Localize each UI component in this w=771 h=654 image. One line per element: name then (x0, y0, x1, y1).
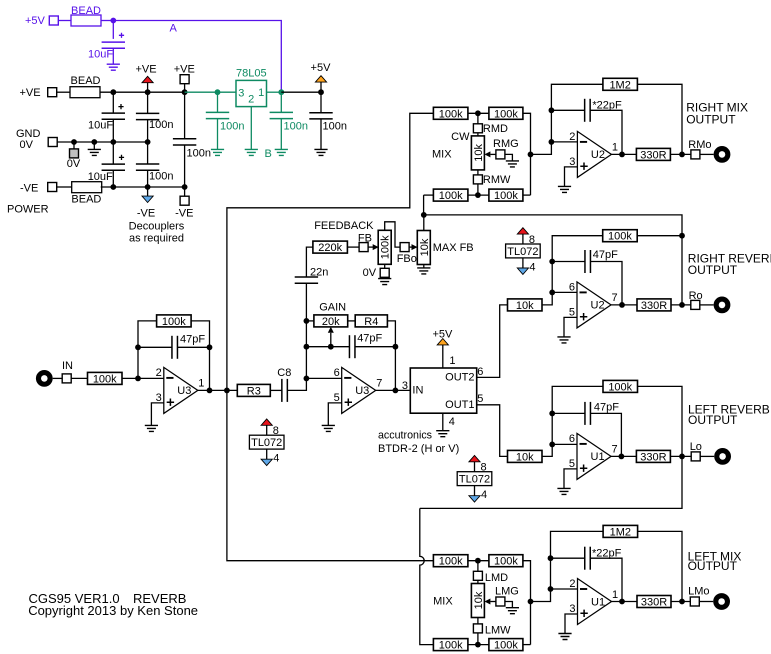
junction +5V node (318, 89, 324, 95)
capacitor *22pF (U2a) (551, 109, 584, 111)
wire 100k to output node (637, 235, 682, 237)
svg-text:1M2: 1M2 (610, 526, 631, 538)
svg-text:47pF: 47pF (593, 249, 618, 261)
ground (78L05 pin2) (245, 149, 258, 155)
junction -VE rail / -VE pad (182, 184, 188, 190)
resistor 100k (left mix top row, dry) (433, 555, 468, 567)
resistor 100k (input) (88, 372, 123, 384)
wire RMo pad to jack (700, 153, 714, 155)
wire +VE pad stub (184, 84, 186, 93)
junction +VE rail / 100n (145, 89, 151, 95)
ferrite bead BEAD (+VE) (70, 87, 100, 98)
svg-text:5: 5 (477, 393, 483, 405)
wire to U1b inverting / feedback (542, 386, 603, 456)
wire reverb-out feedback line (424, 215, 682, 305)
ground (U1b pin5) (557, 488, 570, 494)
svg-text:100k: 100k (439, 640, 463, 652)
wire U1b pin5 to ground (564, 469, 577, 489)
resistor 100k (right mix bottom row, right) (489, 189, 523, 201)
resistor 20k (GAIN pot) (314, 315, 348, 327)
wire BTDR OUT2 to 10k (477, 305, 508, 378)
svg-text:1: 1 (612, 589, 618, 601)
svg-text:R3: R3 (247, 385, 261, 397)
junction U3a output / feedback (207, 388, 213, 394)
wire +VE arrow stub (147, 83, 149, 93)
capacitor 10uF (between +VE and 0V) (112, 92, 114, 113)
svg-text:220k: 220k (318, 242, 342, 254)
node LMW pad (473, 624, 482, 633)
wire bead to junction (101, 20, 113, 22)
capacitor 100n (78L05 output, green) (280, 92, 282, 112)
svg-text:as required: as required (129, 233, 184, 245)
junction 78L05 output / net A (278, 89, 284, 95)
svg-text:POWER: POWER (7, 204, 49, 216)
svg-text:RMG: RMG (493, 138, 519, 150)
wire left reverb output to left mix bottom row (420, 456, 682, 508)
svg-text:OUTPUT: OUTPUT (688, 263, 738, 277)
wire RMW to bottom row (477, 184, 479, 195)
capacitor 100n (between +VE and 0V) (147, 92, 149, 113)
svg-text:100k: 100k (608, 231, 632, 243)
svg-text:U1: U1 (591, 596, 605, 608)
wire 78L05 pin2 to ground (green) (250, 107, 252, 150)
ferrite bead BEAD (-VE) (72, 182, 102, 193)
wire 78L05 output to +5V node (281, 91, 321, 93)
resistor 330R (left mix out) (637, 596, 671, 608)
junction +VE rail / +VE pad (182, 89, 188, 95)
svg-text:RMW: RMW (483, 174, 511, 186)
junction 22pF / U2a output (619, 152, 625, 158)
wire BTDR OUT1 to 10k (477, 405, 508, 457)
svg-text:+VE: +VE (135, 64, 156, 76)
junction 22pF / U1a output (619, 599, 625, 605)
svg-text:47pF: 47pF (180, 334, 205, 346)
ground (U2a pin3) (558, 186, 571, 192)
svg-text:+VE: +VE (20, 87, 41, 99)
svg-text:10k: 10k (419, 238, 431, 256)
svg-text:LMo: LMo (688, 586, 709, 598)
junction top row / LMD (475, 558, 481, 564)
capacitor 47pF (U1b) (552, 412, 585, 414)
op-amp U3 (gain stage, pins 6-5-7) (342, 367, 376, 413)
resistor 330R (left reverb out) (636, 450, 670, 462)
junction 47pF left (U3a) (135, 344, 141, 350)
junction dry signal bus (224, 388, 230, 394)
wire left mix summing right leg (523, 561, 531, 645)
svg-text:+5V: +5V (25, 15, 46, 27)
svg-text:OUTPUT: OUTPUT (688, 559, 738, 573)
svg-text:LMG: LMG (495, 586, 519, 598)
node LMD pad (473, 571, 482, 580)
svg-text:47pF: 47pF (594, 401, 619, 413)
junction 22pF left (U2a) (549, 107, 555, 113)
junction 78L05 input cap (215, 89, 221, 95)
capacitor C8 (281, 379, 283, 402)
junction 47pF right (U3a) (207, 344, 213, 350)
svg-text:*22pF: *22pF (592, 100, 622, 112)
junction 47pF right (U3b) (393, 344, 399, 350)
wire to power ground (93, 142, 95, 149)
connector IN (input jack) (36, 370, 53, 387)
potentiometer 10k (MAX FB) (417, 231, 430, 265)
junction +VE rail / 10uF (110, 89, 116, 95)
wire U3b output to BTDR IN (376, 389, 411, 391)
wire right mix summing right leg (523, 113, 531, 195)
wire 10uF to GND rail (112, 119, 114, 142)
svg-text:MIX: MIX (432, 149, 452, 161)
potentiometer 10k (left MIX) (471, 584, 484, 618)
ferrite bead BEAD (+5V) (71, 15, 101, 26)
junction 100k feedback tap (U2b) (679, 233, 685, 239)
node RMD pad (473, 124, 482, 133)
wire U3a output to R3 (198, 389, 238, 391)
wire IN jack to pad (53, 377, 63, 379)
svg-text:6: 6 (334, 367, 340, 379)
wire IN pad to 100k (71, 377, 87, 379)
wire to pin 6 of U2b (552, 291, 577, 293)
power symbol TL072 (U1, pins 8/4) (469, 455, 480, 461)
wire 220k to FB pad (347, 246, 359, 248)
regulator U? 78L05 (236, 80, 267, 106)
junction GND rail / 10uF (110, 139, 116, 145)
junction left mix summing node (528, 599, 534, 605)
resistor 100k (left mix bottom row, left) (433, 639, 468, 651)
svg-text:100n: 100n (149, 119, 173, 131)
node 0V pad (gray) (73, 142, 75, 149)
capacitor 47pF (U3a feedback) (138, 346, 172, 348)
svg-text:TL072: TL072 (459, 474, 490, 486)
svg-text:6: 6 (477, 366, 483, 378)
svg-text:CW: CW (451, 131, 470, 143)
ground (+5V filter) (314, 149, 327, 155)
junction -VE rail / 100n (145, 184, 151, 190)
svg-text:TL072: TL072 (507, 246, 538, 258)
wire reverb signal into bottom row (424, 194, 434, 196)
svg-text:U1: U1 (591, 451, 605, 463)
connector right reverb output jack (714, 297, 731, 314)
svg-text:100n: 100n (284, 121, 308, 133)
resistor 100k (right mix top row, wet) (489, 107, 523, 119)
svg-text:RMD: RMD (483, 123, 508, 135)
svg-text:330R: 330R (641, 300, 667, 312)
svg-text:10k: 10k (473, 144, 485, 162)
svg-text:-VE: -VE (20, 183, 38, 195)
junction 47pF left (U2b) (549, 259, 555, 265)
svg-text:OUTPUT: OUTPUT (686, 112, 736, 126)
svg-text:10k: 10k (473, 591, 485, 609)
svg-text:330R: 330R (641, 597, 667, 609)
op-amp U2 (right reverb, pins 6-5-7) (577, 282, 611, 328)
wire dry bus down to left MIX (227, 390, 434, 560)
wire GND rail (57, 141, 147, 143)
wire +VE to 78L05 input (green) (185, 91, 236, 93)
junction GND rail / 100n (145, 139, 151, 145)
resistor 220k (feedback) (313, 241, 348, 253)
wire feedback left leg U3a (138, 321, 157, 379)
resistor 100k (right mix top row, dry) (433, 107, 468, 119)
junction 47pF / U2b output (619, 302, 625, 308)
svg-text:100n: 100n (323, 121, 347, 133)
ground (BTDR pin4) (436, 431, 449, 437)
wire U2b pin5 to ground (564, 317, 577, 337)
junction U1b pin6 (549, 442, 555, 448)
wire 330R to Lo pad (670, 455, 691, 457)
wire 100k to U3 pin2 (122, 377, 164, 379)
wire 20k to R4 (348, 320, 356, 322)
svg-text:accutronics: accutronics (378, 430, 432, 442)
potentiometer 10k (right MIX) (471, 136, 484, 170)
svg-text:4: 4 (481, 489, 487, 501)
wire MIX pot to RMW pad (477, 170, 479, 175)
wire to RMD pad (477, 113, 479, 124)
svg-text:U3: U3 (177, 385, 191, 397)
wire U2a pin3 to ground (565, 167, 578, 187)
svg-text:U3: U3 (355, 385, 369, 397)
svg-text:BEAD: BEAD (71, 5, 101, 17)
junction top row / RMD (475, 110, 481, 116)
svg-text:0V: 0V (67, 158, 81, 170)
ground (power rail) (88, 149, 101, 155)
svg-text:100k: 100k (380, 235, 392, 259)
svg-text:100k: 100k (439, 190, 463, 202)
resistor R4 (355, 315, 387, 327)
junction LMo output node (679, 599, 685, 605)
svg-text:LMW: LMW (485, 625, 511, 637)
wire U1a pin3 to ground (565, 614, 578, 634)
wire BTDR pin4 to ground (442, 413, 444, 431)
svg-text:100k: 100k (494, 556, 518, 568)
svg-text:2: 2 (569, 578, 575, 590)
svg-text:C8: C8 (277, 367, 291, 379)
ground (78L05 output) (275, 149, 288, 155)
wire net A to 78L05 output (113, 21, 281, 93)
svg-text:100k: 100k (439, 108, 463, 120)
svg-text:-VE: -VE (175, 208, 193, 220)
svg-text:100n: 100n (187, 147, 211, 159)
capacitor 47pF (U3b feedback) (306, 346, 349, 348)
ground (U3a pin3) (145, 425, 158, 431)
svg-text:2: 2 (156, 367, 162, 379)
svg-text:OUT2: OUT2 (445, 371, 474, 383)
resistor 100k (left mix top row, right) (489, 555, 523, 567)
svg-text:FBo: FBo (397, 253, 417, 265)
capacitor 100n (between +VE and -VE) (184, 92, 186, 139)
potentiometer 20k (GAIN) (306, 320, 314, 322)
svg-text:B: B (265, 148, 272, 160)
svg-text:330R: 330R (640, 149, 666, 161)
connector left mix output jack (713, 593, 730, 610)
node -VE pad (to decouplers) (184, 187, 186, 196)
wire U2a output to 330R (611, 153, 636, 155)
resistor 1M2 (U1a feedback) (603, 525, 638, 537)
wire junction to 10uF (112, 21, 114, 39)
ground (MAX FB) (417, 268, 430, 274)
wire LMD to MIX pot (477, 580, 479, 583)
wire R4 to U3b output (387, 321, 395, 391)
junction GND rail / 0V pad (71, 139, 77, 145)
svg-text:MIX: MIX (433, 596, 453, 608)
svg-text:4: 4 (449, 416, 455, 428)
svg-text:TL072: TL072 (251, 437, 282, 449)
wire to U2b inverting / feedback (542, 236, 603, 305)
wire between top 100k pair (left mix) (468, 560, 489, 562)
svg-text:OUTPUT: OUTPUT (688, 413, 738, 427)
junction Ro output node (679, 302, 685, 308)
junction U3b output (393, 388, 399, 394)
junction bottom row / RMW (475, 192, 481, 198)
svg-text:100n: 100n (220, 121, 244, 133)
junction -VE rail / 10uF (110, 184, 116, 190)
svg-text:1M2: 1M2 (609, 79, 630, 91)
wiper arrow into MAX FB pot (409, 246, 412, 248)
junction U2a pin2 (549, 139, 555, 145)
resistor 100k (U2b feedback) (603, 230, 638, 242)
wire feedback right leg U3a (191, 321, 209, 391)
wire RMG to ground (505, 154, 513, 161)
svg-text:FEEDBACK: FEEDBACK (314, 220, 374, 232)
wire bottom row to right leg (left mix) (523, 644, 531, 646)
resistor 100k (right mix bottom row, left) (433, 189, 468, 201)
wire summing node to U1a input (531, 531, 604, 601)
capacitor 100n (between 0V and -VE) (147, 142, 149, 164)
junction inverting input U3a (135, 376, 141, 382)
reverb module BTDR-2 (410, 368, 476, 413)
svg-text:3: 3 (402, 380, 408, 392)
wire RMD to MIX pot (477, 133, 479, 136)
op-amp U1 (left mix, pins 2-3-1) (578, 579, 612, 625)
wire dry-signal bus (to both MIX top rows) (227, 113, 434, 390)
wire LMW to bottom row (477, 633, 479, 645)
svg-text:A: A (170, 22, 178, 34)
svg-text:U2: U2 (591, 300, 605, 312)
node RMW pad (473, 175, 482, 184)
svg-text:BEAD: BEAD (71, 194, 101, 206)
op-amp U3 (input amp, pins 2-3-1) (164, 367, 198, 413)
wire MAX FB top to right mix row and reverb output (423, 215, 425, 231)
svg-text:1: 1 (198, 378, 204, 390)
svg-text:7: 7 (376, 378, 382, 390)
capacitor *22pF (U1a) (551, 557, 585, 559)
svg-text:10uF: 10uF (88, 120, 113, 132)
svg-text:78L05: 78L05 (236, 68, 267, 80)
svg-text:BEAD: BEAD (71, 75, 101, 87)
wire 330R to RMo pad (670, 153, 691, 155)
ground (RMG) (506, 161, 519, 167)
svg-text:LMD: LMD (485, 572, 508, 584)
junction GAIN row left (304, 318, 310, 324)
svg-text:6: 6 (569, 433, 575, 445)
junction GAIN wiper / 47pF row (328, 344, 334, 350)
svg-text:100k: 100k (494, 190, 518, 202)
capacitor 10uF (between 0V and -VE) (112, 142, 114, 164)
ground (U1a pin3) (558, 634, 571, 640)
resistor 10k (left reverb in) (508, 450, 543, 462)
svg-text:6: 6 (569, 282, 575, 294)
svg-text:100k: 100k (494, 108, 518, 120)
svg-text:1: 1 (258, 87, 264, 99)
wire with hop over dry bus (left mix feed) (420, 508, 434, 644)
wire Ro pad to jack (700, 304, 714, 306)
op-amp U2 (right mix, pins 2-3-1) (577, 131, 611, 177)
wire U1a output to 330R (612, 601, 638, 603)
wire between top 100k pair (468, 112, 489, 114)
wire 100n to GND rail (147, 120, 149, 142)
wire to pin 6 of U1b (552, 443, 577, 445)
junction 47pF / U1b output (619, 454, 625, 460)
junction GND rail / ground (91, 139, 97, 145)
wire bottom row to right leg (523, 194, 531, 196)
wire FEEDBACK pot bottom to 0V pad (384, 264, 386, 268)
wiper arrow left MIX pot (484, 599, 490, 605)
junction RMo output node (679, 152, 685, 158)
junction +5V/A node (110, 18, 116, 24)
op-amp U1 (left reverb, pins 6-5-7) (577, 433, 611, 479)
wire to pin 2 of U1a (551, 588, 578, 590)
capacitor 100n (+5V filter) (320, 92, 322, 113)
svg-text:+5V: +5V (311, 62, 332, 74)
resistor 100k (left mix bottom row, right) (489, 639, 523, 651)
svg-text:10k: 10k (516, 300, 534, 312)
svg-text:GAIN: GAIN (319, 302, 346, 314)
wire U3b pin5 to ground (328, 403, 341, 426)
svg-text:100k: 100k (93, 373, 117, 385)
wire +VE pad to bead (57, 91, 70, 93)
junction MAX FB / mix bottom row (421, 212, 427, 218)
svg-text:22n: 22n (310, 266, 328, 278)
wire 1M2 to output node (638, 531, 682, 601)
wire 22n to 220k (306, 247, 313, 277)
junction 47pF row left (304, 344, 310, 350)
wire Lo pad to jack (700, 455, 714, 457)
wire +VE rail (101, 91, 185, 93)
svg-text:1: 1 (449, 355, 455, 367)
svg-text:100k: 100k (162, 316, 186, 328)
wire +5V pad to bead (58, 20, 71, 22)
ground (LMG) (506, 608, 519, 614)
power symbol -VE (blue arrow) (147, 187, 149, 196)
svg-text:MAX FB: MAX FB (433, 242, 474, 254)
svg-text:10k: 10k (516, 451, 534, 463)
wire to LMD pad (477, 561, 479, 572)
wire FEEDBACK pot top to FBo (385, 222, 400, 247)
junction U2b pin6 (549, 290, 555, 296)
wire U2b output to 330R (611, 304, 637, 306)
svg-text:1: 1 (612, 142, 618, 154)
svg-text:100k: 100k (608, 381, 632, 393)
ground (U2b pin5) (557, 337, 570, 343)
svg-text:100k: 100k (494, 640, 518, 652)
wiper arrow into FEEDBACK pot (368, 246, 373, 248)
wire summing node to U2a input (531, 84, 603, 154)
svg-text:R4: R4 (364, 316, 378, 328)
wire LMG to ground (505, 602, 513, 608)
wire -VE rail (101, 186, 185, 188)
svg-text:4: 4 (273, 453, 279, 465)
svg-text:Decouplers: Decouplers (129, 221, 185, 233)
svg-text:*22pF: *22pF (592, 548, 622, 560)
svg-text:100n: 100n (149, 171, 173, 183)
junction bottom row / LMW (475, 642, 481, 648)
wire MAX FB pot bottom to ground (423, 265, 425, 268)
resistor 100k (U3a feedback) (157, 315, 192, 327)
svg-text:OUT1: OUT1 (445, 399, 474, 411)
capacitor 47pF (U2b) (552, 261, 585, 263)
junction U1a pin2 (548, 586, 554, 592)
wire R3 to C8 (270, 389, 282, 391)
ground (U3b pin5) (322, 425, 335, 431)
capacitor 10uF (+5V rail, polarized) (119, 33, 124, 38)
junction 47pF left (U1b) (549, 411, 555, 417)
